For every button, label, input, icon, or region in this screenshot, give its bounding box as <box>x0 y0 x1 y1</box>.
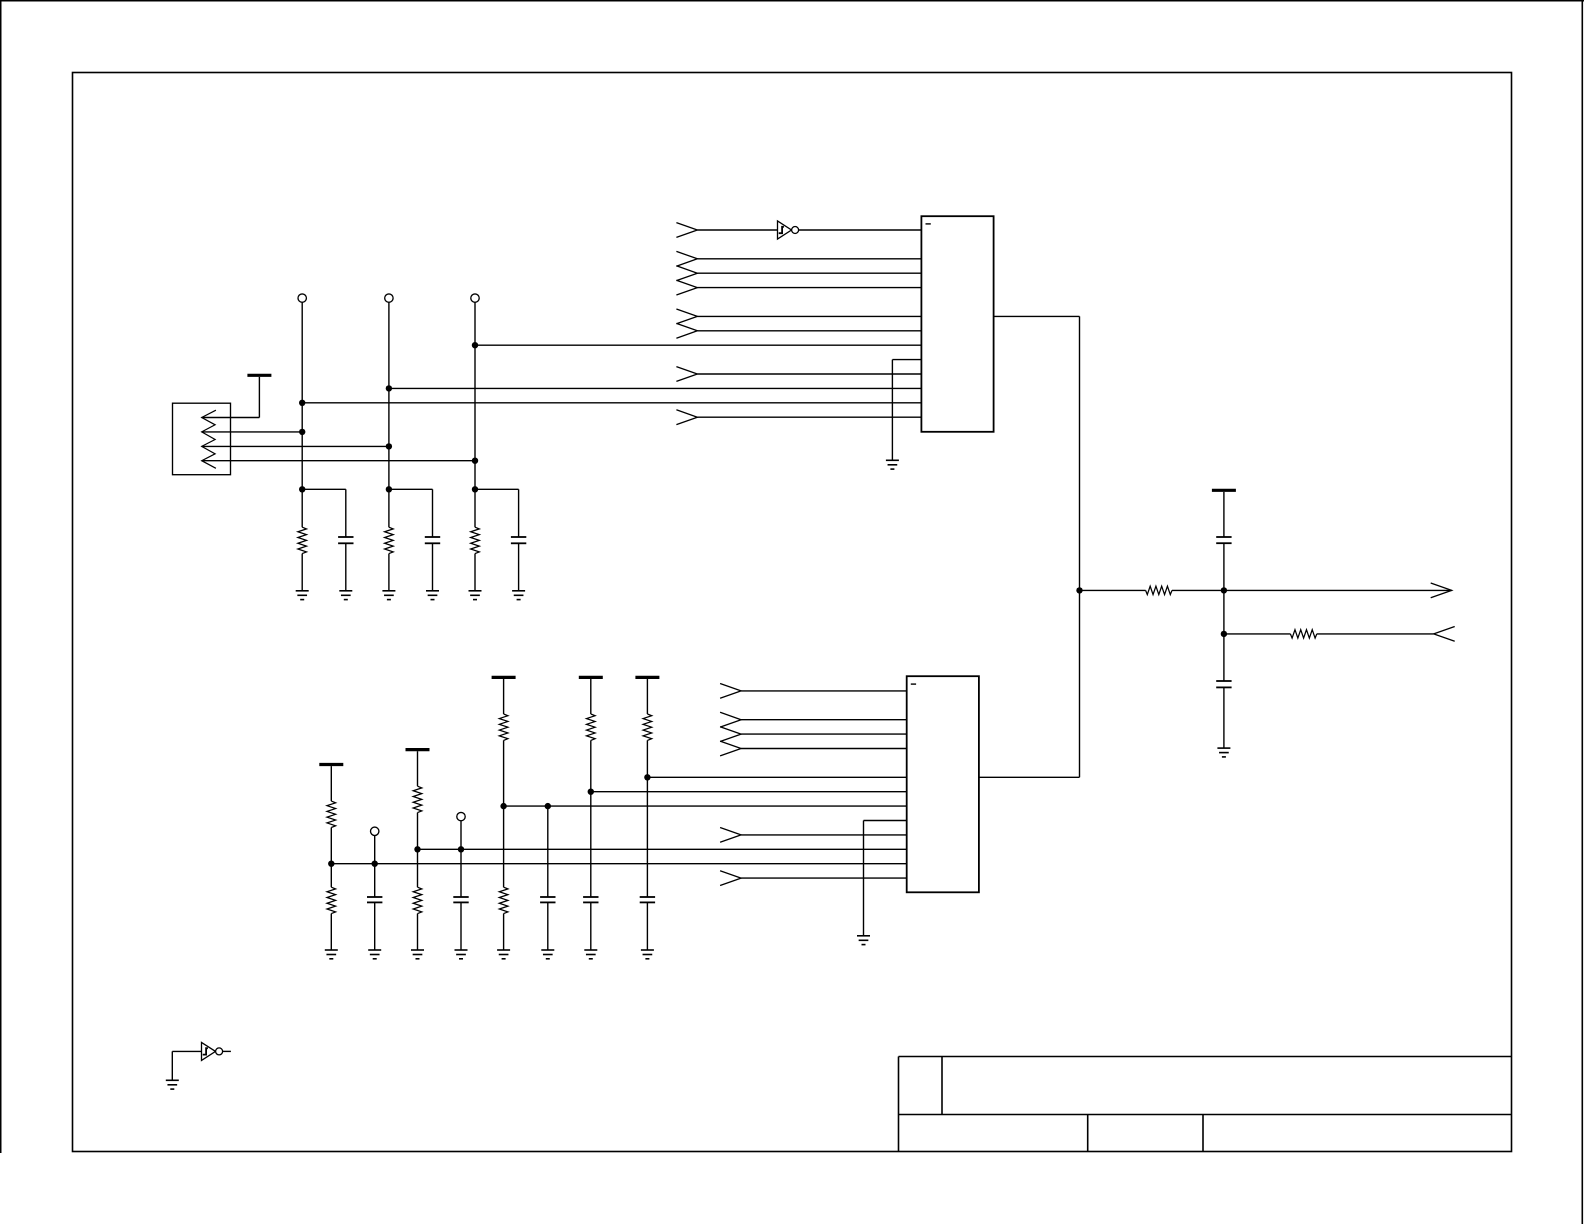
junction node A row wire <box>299 400 305 406</box>
input port arrow U1 pin3 <box>676 266 697 281</box>
capacitor C right lower <box>1216 681 1231 687</box>
sheet inner frame <box>73 73 1512 1152</box>
capacitor C col4 <box>453 897 468 902</box>
wire col1 vertical <box>330 828 332 888</box>
wire inverter U4 output stub <box>223 1050 231 1052</box>
ground col6 <box>541 950 554 959</box>
junction col2 <box>372 861 378 867</box>
wire R col5 to ground <box>503 914 505 950</box>
wire col3 vertical <box>417 813 419 888</box>
resistor RC to ground <box>471 527 480 553</box>
wire col1 to U2 pin11 <box>331 863 906 865</box>
resistor pull-up R col5 <box>499 714 508 740</box>
wire node E to C lower <box>1223 634 1225 681</box>
junction node C RC <box>472 486 478 492</box>
wire port to U2 pin12 <box>741 877 907 879</box>
wire RP1 tap1 to VCC <box>202 417 260 419</box>
ground col2 <box>368 950 381 959</box>
resistor RB to ground <box>385 527 394 553</box>
input port arrow U2 pin3 <box>720 727 741 742</box>
wire port to U1 pin5 <box>697 315 921 317</box>
junction tap2 node A <box>299 429 305 435</box>
wire column C vertical <box>474 302 476 527</box>
wire U2 pin gnd stub <box>864 820 907 822</box>
capacitor C col8 <box>640 897 655 902</box>
wire C col2 to ground <box>374 902 376 950</box>
power symbol VCC1 <box>247 375 271 417</box>
wire port to U2 pin1 <box>741 690 907 692</box>
ground below RC <box>469 591 482 600</box>
resistor R col1 to ground <box>327 887 336 913</box>
wire port to U2 pin3 <box>741 733 907 735</box>
junction tap3 node B <box>386 443 392 449</box>
IC U2 body <box>907 676 979 892</box>
ground below CA <box>339 591 352 600</box>
junction col6 <box>545 803 551 809</box>
resistor pack RP1 box <box>173 403 231 475</box>
wire R col1 to ground <box>330 914 332 950</box>
wire port to U2 pin4 <box>741 748 907 750</box>
wire C upper to node D <box>1223 543 1225 590</box>
inverter U4 (schmitt) <box>202 1042 223 1060</box>
wire node C to U1 pin8 <box>475 344 921 346</box>
resistor pack RP1 element <box>202 410 216 468</box>
ground at U1 <box>886 460 899 469</box>
wire node A cap branch <box>302 489 346 537</box>
capacitor C col7 <box>583 897 598 902</box>
wire inverter U3 to U1 pin1 <box>799 229 922 231</box>
input port arrow left <box>1434 627 1455 642</box>
junction node B row wire <box>386 385 392 391</box>
input port arrow U1 pin5 <box>676 309 697 324</box>
wire col5 to U2 pin7 <box>504 805 907 807</box>
input port arrow U2 pin1 <box>720 684 741 699</box>
junction col3 <box>414 846 420 852</box>
junction tap4 node C <box>472 458 478 464</box>
connector pin col2 <box>371 827 379 835</box>
connector pin col4 <box>457 812 465 820</box>
resistor pull-up R col1 <box>327 801 336 827</box>
wire R col3 to ground <box>417 914 419 950</box>
wire R6 to input port <box>1317 633 1434 635</box>
junction col4 <box>458 846 464 852</box>
wire U1 output <box>994 315 1080 317</box>
wire RP1 tap4 to node C <box>202 460 475 462</box>
wire bus trunk vertical <box>1079 316 1081 777</box>
wire U1 gnd stub vertical <box>891 360 893 461</box>
capacitor CC <box>511 537 526 543</box>
wire CA to ground <box>345 543 347 591</box>
ground col4 <box>455 950 468 959</box>
input port arrow U1 pin10 <box>676 367 697 382</box>
ground col7 <box>584 950 597 959</box>
wire col6 vertical <box>547 806 549 897</box>
wire column A vertical <box>301 302 303 527</box>
wire RA to ground <box>301 554 303 591</box>
wire ground to inverter U4 <box>172 1051 201 1080</box>
wire port to U1 pin3 <box>697 272 921 274</box>
wire trunk to R5 <box>1080 589 1146 591</box>
power symbol VCC col8 <box>635 677 659 714</box>
wire RB to ground <box>388 554 390 591</box>
ground right section <box>1217 748 1230 757</box>
wire U1 pin gnd stub <box>892 359 921 361</box>
junction col8 <box>644 774 650 780</box>
wire port to U1 pin4 <box>697 287 921 289</box>
junction col1 <box>328 861 334 867</box>
ground below RA <box>296 591 309 600</box>
wire col5 vertical <box>503 740 505 887</box>
capacitor CB <box>425 537 440 543</box>
wire port to U2 pin9 <box>741 834 907 836</box>
title block cell date <box>1087 1115 1089 1152</box>
input port arrow U1 pin1 <box>676 223 697 238</box>
connector pin PA <box>298 294 306 302</box>
resistor pull-up R col7 <box>587 714 596 740</box>
wire C lower to ground <box>1223 687 1225 748</box>
resistor pull-up R col3 <box>413 786 422 812</box>
wire RP1 tap3 to node B <box>202 445 389 447</box>
wire node D to node E <box>1223 590 1225 634</box>
ground col5 <box>497 950 510 959</box>
input port arrow U2 pin9 <box>720 828 741 843</box>
wire node D to output port <box>1224 589 1452 591</box>
input port arrow U1 pin13 <box>676 410 697 425</box>
resistor R col3 to ground <box>413 887 422 913</box>
wire col8 vertical <box>646 740 648 897</box>
junction col7 <box>588 789 594 795</box>
wire R5 to node D <box>1172 589 1224 591</box>
capacitor C col6 <box>540 897 555 902</box>
IC U2 pin1 polarity dash <box>911 683 916 685</box>
wire RP1 tap2 to node A <box>202 431 303 433</box>
power symbol VCC col7 <box>579 677 603 714</box>
resistor R5 series <box>1146 586 1172 594</box>
wire port to U1 pin10 <box>697 373 921 375</box>
wire C col7 to ground <box>590 902 592 950</box>
wire col7 to U2 pin6 <box>591 791 907 793</box>
title block cell sheet <box>1202 1115 1204 1152</box>
wire node E to R6 <box>1224 633 1291 635</box>
wire CC to ground <box>518 543 520 591</box>
IC U1 body <box>921 216 993 432</box>
junction trunk mid <box>1076 587 1082 593</box>
wire col8 to U2 pin5 <box>647 776 906 778</box>
ground col1 <box>325 950 338 959</box>
input port arrow U2 pin12 <box>720 871 741 886</box>
junction col5 <box>500 803 506 809</box>
input port arrow U1 pin6 <box>676 323 697 338</box>
title block cell revision <box>941 1057 943 1115</box>
wire col4 vertical <box>460 821 462 897</box>
resistor R6 series <box>1290 630 1316 638</box>
wire C col8 to ground <box>646 902 648 950</box>
wire col7 vertical <box>590 740 592 897</box>
junction node C row wire <box>472 342 478 348</box>
wire col3 to U2 pin10 <box>418 848 907 850</box>
resistor pull-up R col8 <box>643 714 652 740</box>
wire C col6 to ground <box>547 902 549 950</box>
wire port to U2 pin2 <box>741 719 907 721</box>
inverter U3 (schmitt) <box>778 221 799 239</box>
power symbol VCC col3 <box>406 750 430 787</box>
wire U2 output <box>979 776 1080 778</box>
capacitor CA <box>338 537 353 543</box>
wire C col4 to ground <box>460 902 462 950</box>
capacitor C col2 <box>367 897 382 902</box>
wire node C cap branch <box>475 489 519 537</box>
input port arrow U2 pin4 <box>720 741 741 756</box>
junction node B RC <box>386 486 392 492</box>
power symbol VCC col5 <box>492 677 516 714</box>
wire port to U1 pin2 <box>697 258 921 260</box>
title block divider row <box>899 1114 1512 1116</box>
capacitor C right upper <box>1216 537 1231 543</box>
ground col8 <box>641 950 654 959</box>
connector pin PC <box>471 294 479 302</box>
power symbol VCC right <box>1212 490 1236 537</box>
wire port to U1 pin13 <box>697 416 921 418</box>
wire port to inverter U3 <box>697 229 777 231</box>
junction node E <box>1221 631 1227 637</box>
ground below RB <box>382 591 395 600</box>
resistor R col5 to ground <box>499 887 508 913</box>
ground at inverter U4 <box>166 1080 179 1089</box>
title block outline <box>899 1057 1512 1152</box>
IC U1 pin1 polarity dash <box>926 223 931 225</box>
ground col3 <box>411 950 424 959</box>
ground at U2 <box>857 936 870 945</box>
wire node B to U1 pin11 <box>389 387 922 389</box>
resistor RA to ground <box>298 527 307 553</box>
ground below CB <box>426 591 439 600</box>
ground below CC <box>512 591 525 600</box>
wire column B vertical <box>388 302 390 527</box>
connector pin PB <box>385 294 393 302</box>
wire U2 gnd stub vertical <box>863 821 865 936</box>
output port arrow right <box>1431 583 1452 598</box>
junction node D <box>1221 587 1227 593</box>
input port arrow U1 pin2 <box>676 251 697 266</box>
power symbol VCC col1 <box>319 765 343 802</box>
input port arrow U2 pin2 <box>720 712 741 727</box>
wire col2 vertical <box>374 836 376 898</box>
junction node A RC <box>299 486 305 492</box>
wire RC to ground <box>474 554 476 591</box>
wire node A to U1 pin12 <box>302 402 921 404</box>
input port arrow U1 pin4 <box>676 280 697 295</box>
wire node B cap branch <box>389 489 433 537</box>
wire CB to ground <box>432 543 434 591</box>
wire port to U1 pin6 <box>697 330 921 332</box>
